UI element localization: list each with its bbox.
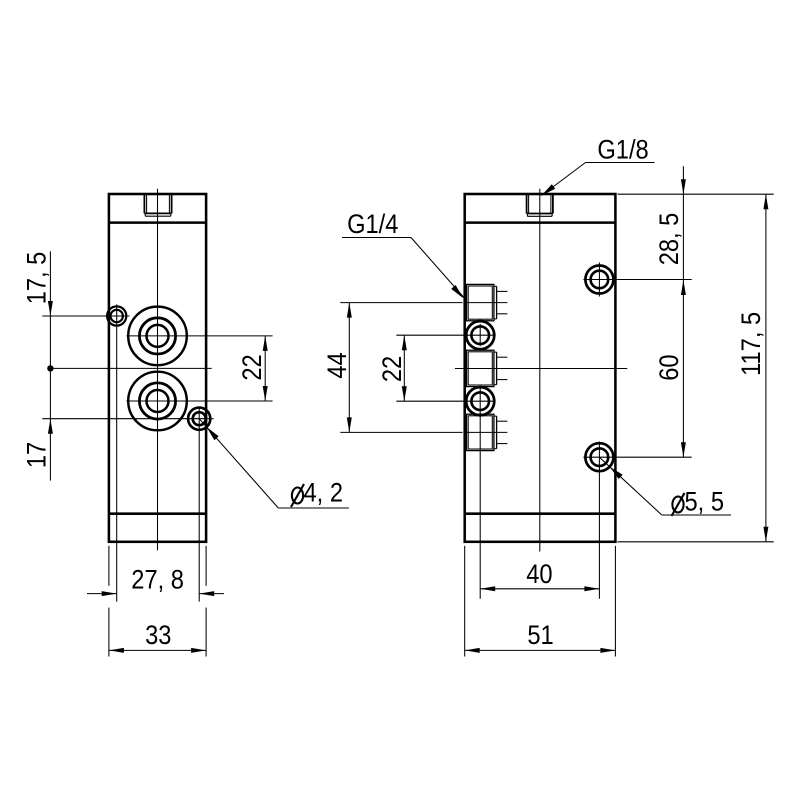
svg-text:28,5: 28,5	[655, 213, 685, 266]
svg-text:33: 33	[145, 621, 171, 651]
svg-text:44: 44	[322, 352, 352, 378]
svg-text:4,2: 4,2	[304, 478, 343, 508]
svg-text:17,5: 17,5	[22, 252, 52, 305]
svg-text:22: 22	[238, 354, 268, 380]
svg-text:117,5: 117,5	[737, 312, 767, 376]
svg-text:G1/4: G1/4	[347, 210, 398, 240]
svg-text:G1/8: G1/8	[597, 135, 648, 165]
svg-text:17: 17	[22, 442, 52, 468]
svg-text:22: 22	[377, 356, 407, 382]
svg-text:60: 60	[655, 354, 685, 380]
svg-text:51: 51	[527, 621, 553, 651]
svg-text:27,8: 27,8	[131, 565, 184, 595]
svg-text:5,5: 5,5	[685, 487, 724, 517]
svg-text:40: 40	[526, 560, 552, 590]
